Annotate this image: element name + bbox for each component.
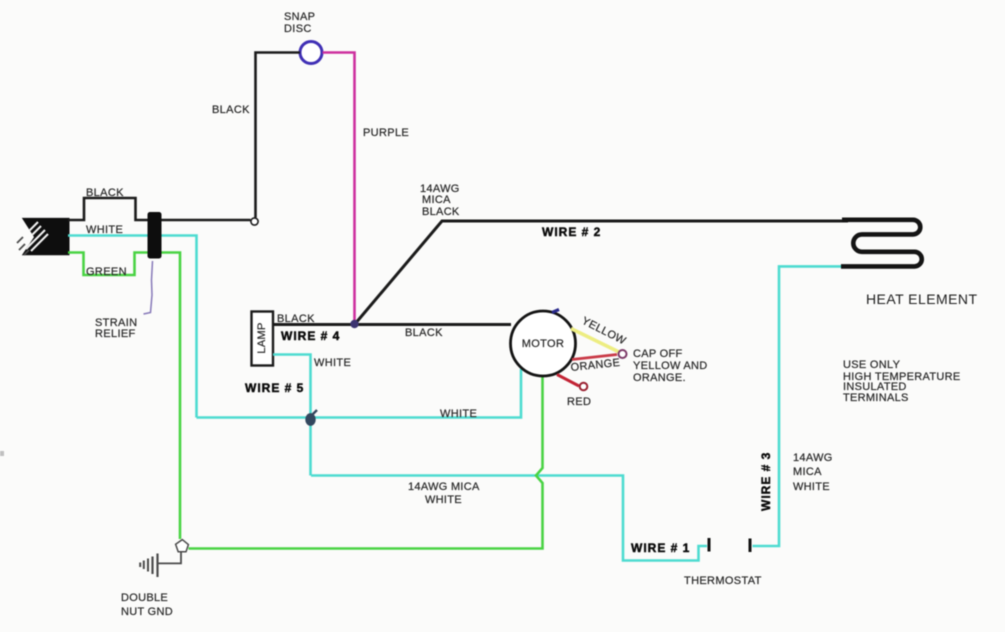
svg-text:WHITE: WHITE	[425, 494, 462, 506]
svg-text:WIRE # 2: WIRE # 2	[542, 225, 601, 239]
red end circle	[580, 383, 588, 391]
svg-text:WHITE: WHITE	[793, 481, 830, 493]
motor top junction tick	[552, 310, 559, 313]
svg-text:SNAP: SNAP	[284, 11, 315, 23]
svg-text:WHITE: WHITE	[440, 408, 477, 420]
stray mark left edge	[0, 451, 4, 456]
ground symbol	[140, 554, 157, 578]
wire white cyan #1: thermostat to junction X	[311, 476, 707, 561]
svg-text:MICA: MICA	[793, 466, 822, 478]
label 14AWG MICA BLACK	[420, 183, 460, 218]
label 14AWG MICA WHITE (bottom)	[408, 481, 480, 506]
node A junction dot	[350, 320, 358, 328]
wire white cyan #3: heat element down to thermostat	[753, 266, 842, 546]
wire white cyan: horizontal to motor	[197, 369, 522, 418]
wire black: plug to strain relief and junction circle	[68, 198, 251, 220]
svg-text:BLACK: BLACK	[86, 187, 124, 199]
thermostat contact right	[749, 539, 752, 553]
svg-text:WHITE: WHITE	[86, 224, 123, 236]
svg-text:HEAT ELEMENT: HEAT ELEMENT	[866, 291, 977, 307]
ground connector	[158, 553, 181, 564]
heat element HE1	[841, 220, 922, 267]
ground pentagon node	[176, 540, 189, 552]
cap off circle (yellow/orange)	[619, 350, 627, 358]
svg-text:ORANGE.: ORANGE.	[633, 372, 686, 384]
wire orange: motor to cap	[572, 355, 617, 360]
wire red: motor stub	[557, 375, 579, 387]
svg-text:GREEN: GREEN	[86, 266, 127, 278]
svg-text:MOTOR: MOTOR	[522, 338, 565, 350]
svg-text:THERMOSTAT: THERMOSTAT	[684, 575, 762, 587]
snap disc label	[284, 11, 315, 35]
svg-text:WIRE # 5: WIRE # 5	[245, 381, 304, 395]
label DOUBLE NUT GND	[121, 592, 173, 618]
wire white cyan: lamp to junction X and down	[273, 355, 311, 476]
svg-text:RED: RED	[567, 396, 591, 408]
strain relief (black bar)	[148, 212, 162, 259]
junction circle (node)	[251, 218, 258, 225]
wire black #2 diagonal: node A up to heat element	[355, 221, 849, 325]
svg-text:PURPLE: PURPLE	[363, 127, 409, 139]
wire black #4: lamp to motor	[273, 323, 511, 326]
wire white cyan: plug to vertical run	[68, 236, 197, 418]
junction X blob	[305, 410, 317, 426]
svg-text:YELLOW AND: YELLOW AND	[633, 360, 708, 372]
svg-text:14AWG MICA: 14AWG MICA	[408, 481, 480, 493]
strain relief leader line	[144, 261, 153, 314]
svg-text:USE ONLY: USE ONLY	[843, 359, 901, 371]
label STRAIN RELIEF	[95, 317, 137, 340]
svg-text:RELIEF: RELIEF	[95, 328, 136, 340]
wire purple: snap disc down to node A	[323, 53, 355, 322]
wire green: motor down with hop, to ground run	[189, 375, 543, 549]
plug P1	[17, 218, 70, 255]
wire black: snap disc to junction circle	[256, 53, 301, 218]
svg-text:NUT GND: NUT GND	[121, 606, 173, 618]
svg-text:MICA: MICA	[422, 194, 451, 206]
svg-text:BLACK: BLACK	[212, 104, 250, 116]
svg-text:WIRE # 4: WIRE # 4	[281, 329, 340, 343]
svg-text:DOUBLE: DOUBLE	[121, 592, 168, 604]
svg-text:LAMP: LAMP	[256, 322, 268, 353]
label 14AWG MICA WHITE (right)	[793, 452, 833, 493]
lamp L1	[252, 312, 274, 366]
thermostat contact left	[708, 538, 711, 552]
label CAP OFF YELLOW AND ORANGE.	[633, 348, 708, 384]
svg-text:WIRE # 3: WIRE # 3	[759, 452, 773, 511]
snap disc	[300, 42, 322, 64]
wire yellow: motor to cap	[571, 329, 620, 353]
motor M1	[511, 311, 576, 376]
svg-text:DISC: DISC	[284, 23, 312, 35]
svg-text:CAP OFF: CAP OFF	[633, 348, 683, 360]
svg-text:TERMINALS: TERMINALS	[843, 392, 909, 404]
svg-text:14AWG: 14AWG	[793, 452, 833, 464]
wire green: plug to ground pentagon	[68, 253, 180, 540]
label USE ONLY HIGH TEMPERATURE INSULATED TERMINALS	[843, 359, 960, 404]
svg-text:WIRE # 1: WIRE # 1	[631, 541, 690, 555]
svg-text:WHITE: WHITE	[314, 357, 351, 369]
svg-text:BLACK: BLACK	[405, 327, 443, 339]
svg-text:BLACK: BLACK	[422, 206, 460, 218]
